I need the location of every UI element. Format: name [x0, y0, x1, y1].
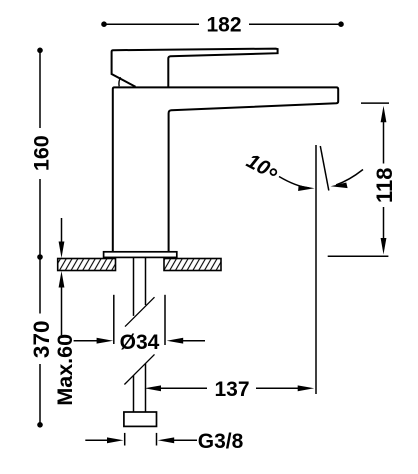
- base flange: [104, 252, 177, 258]
- 10 degree right arc arrow: [336, 170, 363, 185]
- dimension 160 line: [39, 50, 41, 257]
- dimension 118 bottom extension line: [328, 255, 389, 257]
- dimension 137 right segment with arrow: [256, 385, 314, 391]
- dimension 160 end dots: [37, 48, 43, 54]
- countertop hatch right: [164, 259, 221, 271]
- water stream vertical line: [315, 145, 317, 394]
- dimension G3/8 left arrow: [85, 437, 123, 443]
- svg-text:160: 160: [30, 135, 54, 171]
- dimension 118 top extension line: [361, 102, 389, 104]
- supply pipe upper segment: [134, 258, 146, 316]
- dimension G3/8 left extension line: [124, 433, 126, 446]
- dimension D34 left extension line: [113, 295, 115, 344]
- dimension 370 line: [39, 257, 41, 425]
- lever handle outline: [112, 49, 278, 87]
- svg-text:Ø34: Ø34: [120, 331, 160, 354]
- lever front arc detail: [119, 77, 121, 86]
- dimension 137 left arrow: [145, 385, 208, 391]
- dimension D34 left arrow: [74, 338, 114, 344]
- pipe break slash 2: [124, 354, 154, 384]
- dimension D34 right extension line: [164, 295, 166, 345]
- dimension 182 line: [104, 23, 341, 25]
- dimension G3/8 right arrow: [158, 437, 197, 443]
- svg-text:182: 182: [206, 13, 241, 36]
- dimension D34 right arrow: [167, 338, 205, 344]
- pipe break slash 1: [125, 297, 155, 326]
- G3/8 connector: [124, 412, 157, 426]
- dimension G3/8 right extension line: [156, 433, 158, 446]
- water stream tilted line: [320, 146, 329, 191]
- countertop hatch left: [58, 259, 116, 271]
- faucet body and spout outline: [113, 87, 338, 252]
- dimension 370 end dot: [37, 422, 43, 428]
- supply pipe lower segment: [134, 364, 146, 412]
- svg-text:118: 118: [372, 168, 397, 204]
- Max.60 upper arrow: [59, 218, 65, 258]
- 10 degree label: [243, 149, 281, 184]
- dimension 182 end dots: [101, 21, 107, 27]
- svg-text:G3/8: G3/8: [198, 430, 244, 453]
- svg-text:Max.60: Max.60: [53, 334, 77, 406]
- svg-text:137: 137: [214, 378, 249, 401]
- 10 degree left arc arrow: [279, 177, 309, 188]
- dimension 118 line with arrows: [381, 106, 387, 255]
- Max.60 lower arrow: [59, 271, 65, 335]
- svg-text:370: 370: [29, 321, 54, 359]
